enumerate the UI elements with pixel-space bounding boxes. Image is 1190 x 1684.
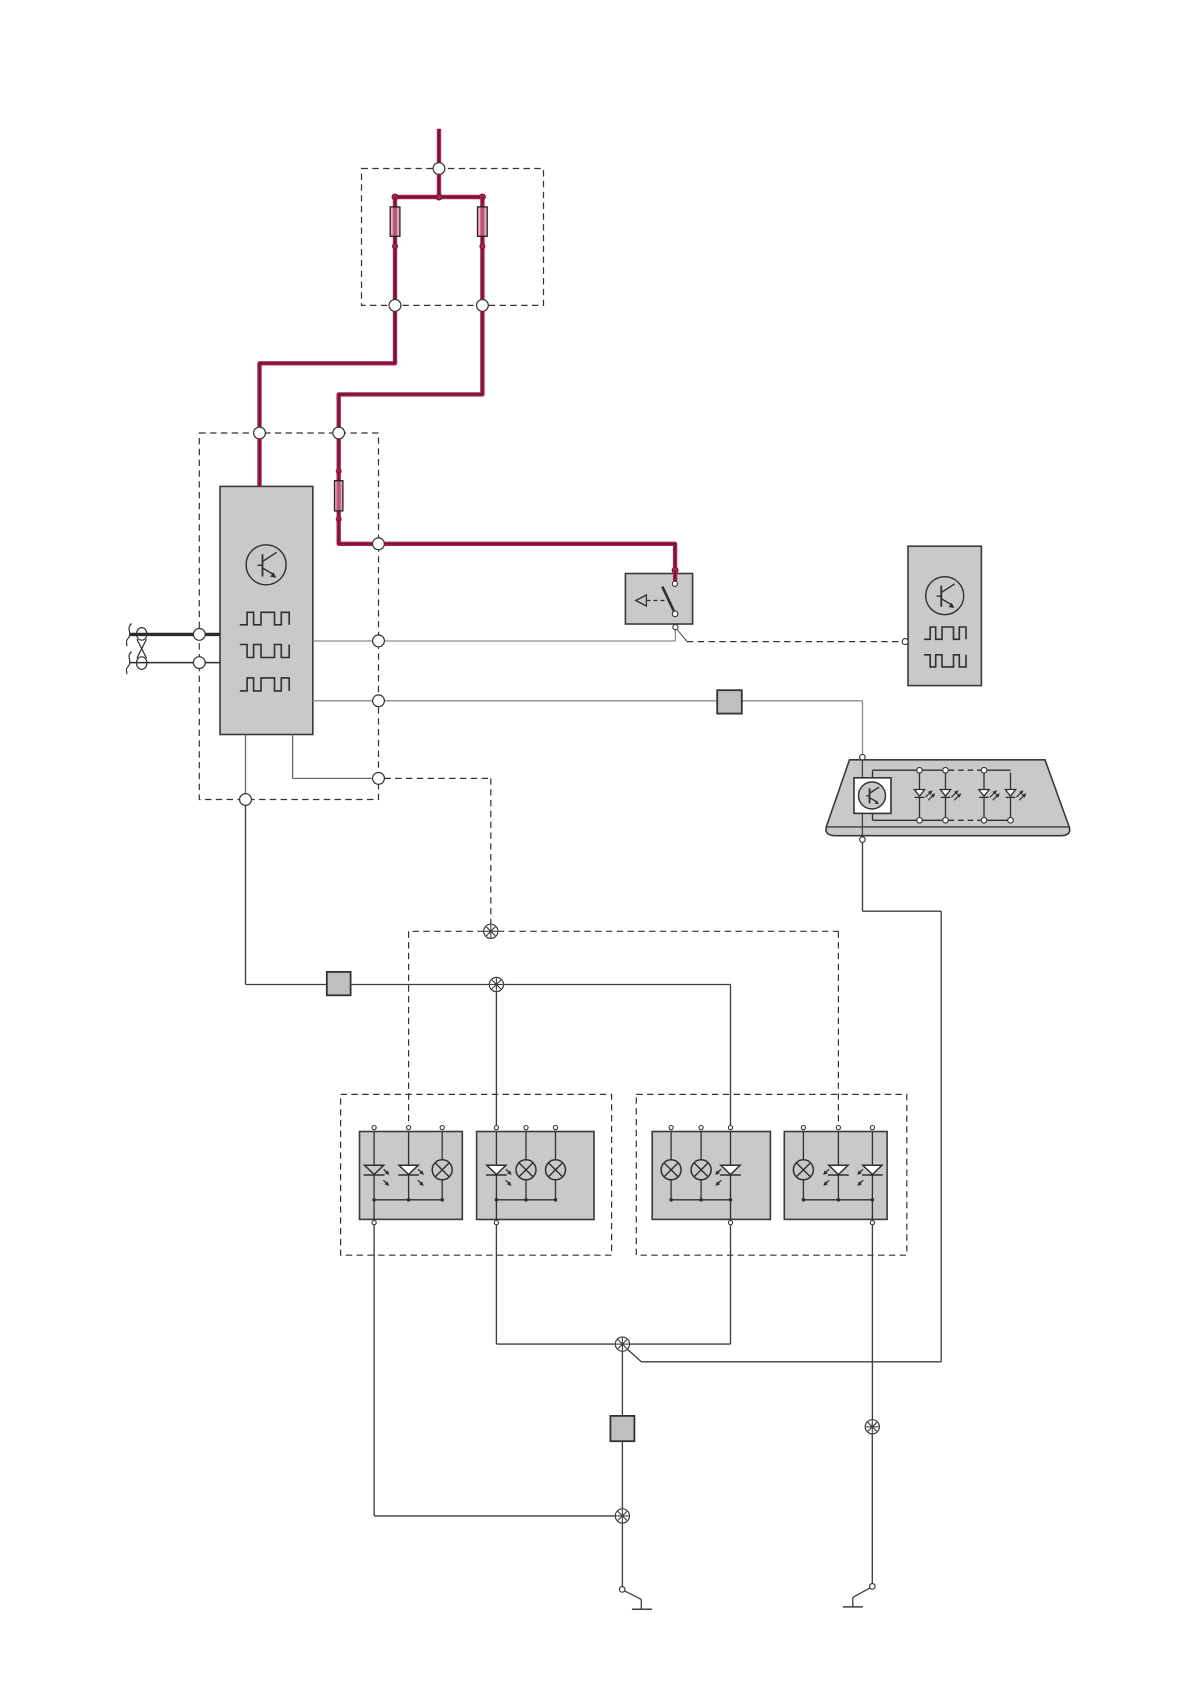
node LED 2 top bus xyxy=(943,767,949,773)
wire connector to splice S2 xyxy=(351,984,490,986)
wire into module pin30 xyxy=(257,439,261,487)
pin module output 1 xyxy=(373,635,385,647)
wire S2 to rear left lamp xyxy=(504,984,731,986)
front right lamp pin 2 xyxy=(524,1126,528,1130)
wire feed to fuse bar xyxy=(437,174,441,197)
ground G2 xyxy=(870,1584,876,1590)
connector square C1 xyxy=(327,972,351,995)
left lamp cluster dashed boundary xyxy=(341,1094,612,1255)
transistor symbol in steering module xyxy=(926,577,964,615)
wire front right lamp to splice S3 xyxy=(495,1225,497,1344)
wire F1 to central module xyxy=(260,311,396,427)
front left lamp pin 2 xyxy=(407,1126,411,1130)
pin module output 3 xyxy=(373,773,385,785)
rear left lamp body xyxy=(652,1132,770,1220)
rear right lamp pin 1 xyxy=(801,1126,805,1130)
wire LED 1 branch xyxy=(919,773,921,790)
wire C3 to splice S4 xyxy=(621,1441,623,1509)
splice S5 xyxy=(865,1420,879,1434)
pin LED module bottom xyxy=(860,837,866,843)
rear right lamp body xyxy=(784,1132,887,1220)
transistor symbol in central module xyxy=(246,545,286,585)
square wave symbol 2 in central module xyxy=(240,645,289,658)
LED module top bus xyxy=(873,769,943,771)
wire feed to hazard switch xyxy=(384,544,675,571)
splice S2 xyxy=(489,977,503,991)
wire fuse to switch feed xyxy=(339,519,373,544)
wire central module to LED lamp module xyxy=(313,700,373,702)
rear left lamp pin 1 xyxy=(669,1126,673,1130)
dashed wire S1 to rear right lamp xyxy=(498,930,839,932)
front left lamp body xyxy=(360,1132,463,1220)
LED 3 in lamp module xyxy=(979,790,1000,801)
rear right lamp pin 2 xyxy=(836,1126,840,1130)
central electronic module body xyxy=(220,486,313,734)
rear left lamp bus junction dots xyxy=(669,1198,673,1202)
rear right lamp pin 3 xyxy=(870,1126,874,1130)
front left lamp pin 3 xyxy=(440,1126,444,1130)
front left lamp LED 1 xyxy=(364,1165,390,1186)
wire S4 to ground G1 xyxy=(621,1523,623,1587)
hazard switch pivot contact xyxy=(672,611,678,617)
wire battery feed xyxy=(437,129,441,163)
wire front left lamp to splice S4 xyxy=(373,1225,375,1516)
node fuse box output left xyxy=(389,300,401,312)
front right lamp internal wiring xyxy=(495,1132,497,1166)
rear right lamp bulb 1 xyxy=(793,1160,813,1180)
wire through fuse F1 xyxy=(393,197,397,300)
rear left lamp pin 3 xyxy=(728,1126,732,1130)
rear left lamp bulb 2 xyxy=(691,1160,711,1180)
central module 4/16 dashed boundary xyxy=(199,433,378,800)
hazard switch lever xyxy=(662,587,674,613)
wire through fuse F2 xyxy=(480,197,484,300)
pin CAN-H xyxy=(193,629,205,641)
LED 4 in lamp module xyxy=(1005,790,1026,801)
node module supply 1 xyxy=(254,427,266,439)
rear left lamp bulb 1 xyxy=(661,1160,681,1180)
connector square C3 xyxy=(610,1416,634,1441)
LED 1 in lamp module xyxy=(914,790,935,801)
transistor unit in LED module xyxy=(854,778,891,814)
node switch feed xyxy=(373,538,385,550)
wire LED module bus risers xyxy=(872,770,874,778)
wire hazard switch to steering module (dashed) xyxy=(677,630,687,642)
front right lamp body xyxy=(477,1132,594,1220)
steering module body xyxy=(908,546,981,685)
wire LED module return xyxy=(862,842,864,911)
square wave symbol 2 in steering module xyxy=(924,655,966,667)
twisted pair symbol xyxy=(137,628,147,641)
rear right lamp bus junction dots xyxy=(802,1198,806,1202)
node battery feed at fuse box xyxy=(433,163,445,175)
front right lamp bulb 2 xyxy=(516,1160,536,1180)
wire S3 to connector C3 xyxy=(621,1351,623,1416)
wire central module to hazard switch xyxy=(313,640,373,642)
front left lamp bus junction dots xyxy=(372,1198,376,1202)
rear right lamp LED 3 xyxy=(857,1165,883,1186)
internal fuse F3 xyxy=(335,481,343,511)
right lamp cluster dashed boundary xyxy=(636,1094,907,1255)
wire rear right lamp to ground G2 xyxy=(871,1225,873,1420)
wire module pin1 down to connector xyxy=(245,805,247,984)
wire into switch xyxy=(673,570,677,581)
square wave symbol 1 in central module xyxy=(240,612,289,625)
front right lamp LED 1 xyxy=(486,1165,512,1186)
pin hazard switch output xyxy=(673,625,678,630)
wire LED 3 branch xyxy=(983,773,985,790)
front left lamp output pin xyxy=(372,1221,376,1225)
pin module output 2 xyxy=(373,695,385,707)
rear left lamp output pin xyxy=(728,1221,732,1225)
front left lamp LED 2 xyxy=(398,1165,424,1186)
dot at switch entry xyxy=(672,567,678,573)
dot below F1 xyxy=(393,244,398,249)
wire break squiggle bottom xyxy=(126,652,131,675)
ground G1 xyxy=(619,1587,625,1593)
pin steering module input xyxy=(902,639,908,645)
node LED 4 bottom bus xyxy=(1008,818,1014,824)
fuse F1 xyxy=(390,207,400,236)
fuse F2 xyxy=(478,207,488,236)
LED module bottom bus xyxy=(873,819,943,821)
node LED 1 top bus xyxy=(917,767,923,773)
pin CAN-L xyxy=(193,657,205,669)
LED lamp module body (trapezoid) xyxy=(826,760,1070,836)
splice S3 xyxy=(615,1337,629,1351)
wire central module bottom pin 2 xyxy=(292,735,294,779)
square wave symbol 1 in steering module xyxy=(924,627,966,639)
rear right lamp output pin xyxy=(870,1221,874,1225)
wire LED 4 branch xyxy=(1010,773,1012,790)
junction dots on bar xyxy=(392,194,398,200)
wire rear left lamp to splice S3 xyxy=(730,1225,732,1344)
wire F2 to module area xyxy=(339,311,483,427)
pin switch input xyxy=(672,581,677,586)
node LED 3 top bus xyxy=(981,767,987,773)
hazard switch body xyxy=(625,574,692,625)
red distribution bar xyxy=(395,195,482,199)
splice S1 xyxy=(484,924,498,938)
wire central module bottom pin 1 xyxy=(245,735,247,794)
front right lamp bulb 3 xyxy=(546,1160,566,1180)
rear left lamp pin 2 xyxy=(699,1126,703,1130)
CAN-L wire (thin) xyxy=(130,662,220,664)
rear right lamp internal wiring xyxy=(802,1132,804,1160)
rear right lamp LED 2 xyxy=(823,1165,849,1186)
connector square C2 xyxy=(717,690,742,713)
rear left lamp internal wiring xyxy=(670,1132,672,1160)
front right lamp pin 3 xyxy=(553,1126,557,1130)
rear left lamp LED 3 xyxy=(715,1165,741,1186)
node fuse box output right xyxy=(477,300,489,312)
dot above internal fuse xyxy=(336,469,341,474)
front right lamp bus junction dots xyxy=(495,1198,499,1202)
wire break squiggle top xyxy=(126,624,131,647)
wire S2 to front right lamp xyxy=(495,992,497,1126)
dot below F2 xyxy=(480,244,485,249)
hazard switch actuator arrow xyxy=(636,595,667,606)
dot below internal fuse xyxy=(336,517,341,522)
node LED 1 bottom bus xyxy=(917,818,923,824)
node LED 3 bottom bus xyxy=(981,818,987,824)
LED 2 in lamp module xyxy=(940,790,961,801)
pin LED module top xyxy=(860,754,866,760)
fuse box 11/1 dashed boundary xyxy=(362,169,544,306)
front left lamp pin 1 xyxy=(372,1126,376,1130)
wire LED module internal supply xyxy=(861,760,863,778)
pin module bottom xyxy=(240,794,252,806)
wire through internal fuse xyxy=(337,471,341,519)
front right lamp output pin xyxy=(494,1221,498,1225)
splice S4 xyxy=(615,1509,629,1523)
front left lamp internal wiring xyxy=(373,1132,375,1166)
wire LED 2 branch xyxy=(945,773,947,790)
front right lamp pin 1 xyxy=(494,1126,498,1130)
dashed wire module to splice S1 xyxy=(384,777,490,779)
CAN-H wire (thick) xyxy=(130,633,220,636)
dashed wire S1 to front left lamp xyxy=(409,930,484,932)
node module supply 2 xyxy=(333,427,345,439)
wire to internal fuse xyxy=(337,439,341,471)
front left lamp bulb 3 xyxy=(432,1160,452,1180)
square wave symbol 3 in central module xyxy=(240,678,289,691)
node LED 2 bottom bus xyxy=(943,818,949,824)
